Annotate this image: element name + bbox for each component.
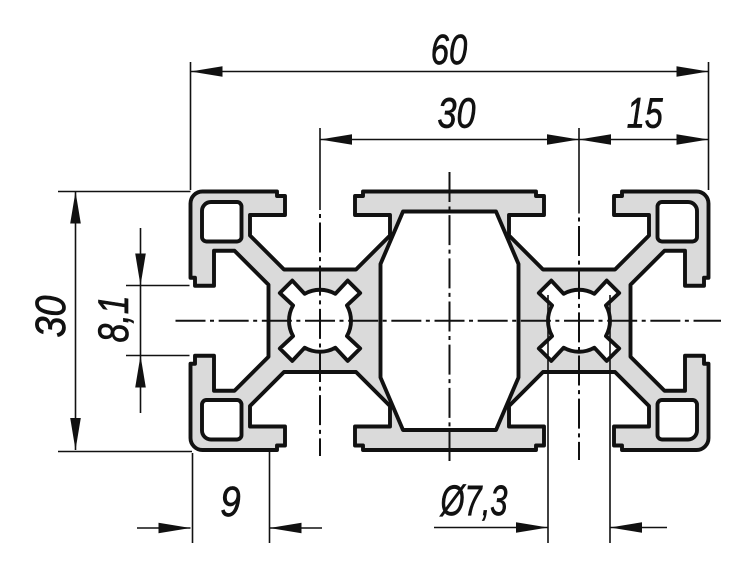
arrow 30 vert top xyxy=(70,192,81,224)
dim 9 left extension xyxy=(192,453,194,543)
svg-text:8,1: 8,1 xyxy=(90,296,138,343)
svg-text:15: 15 xyxy=(627,90,664,138)
svg-text:30: 30 xyxy=(438,90,476,138)
dim 60 left extension xyxy=(190,62,192,190)
dim 8,1 top extension xyxy=(126,285,190,287)
dim 7,3 left extension xyxy=(547,295,549,543)
centerline vertical through left anchor hole xyxy=(319,214,321,456)
dim 7,3 left shaft xyxy=(434,527,548,529)
arrow 7,3 right xyxy=(610,522,642,533)
arrow 8,1 top xyxy=(135,254,146,286)
arrow 30 top right xyxy=(547,134,579,145)
arrow 60 left xyxy=(191,66,223,77)
arrow 7,3 left xyxy=(516,522,548,533)
dim 30 vertical line (left) xyxy=(75,192,77,451)
arrow 8,1 bottom xyxy=(135,356,146,388)
arrow 30 top left xyxy=(320,134,352,145)
dim 30 bottom extension xyxy=(58,451,192,453)
centerline vertical profile middle xyxy=(449,172,451,461)
svg-text:Ø7,3: Ø7,3 xyxy=(439,477,507,525)
arrow 9 left xyxy=(159,523,191,534)
dim 8,1 line xyxy=(140,228,142,413)
dim 30 top extension xyxy=(58,191,191,193)
dim 60 right extension xyxy=(708,62,710,190)
svg-text:9: 9 xyxy=(220,478,241,526)
centerline horizontal profile middle xyxy=(176,320,722,322)
svg-text:30: 30 xyxy=(27,295,75,337)
arrow 9 right xyxy=(270,523,302,534)
dim 30/15 line xyxy=(320,139,709,141)
svg-text:60: 60 xyxy=(431,26,468,74)
dim 8,1 bottom extension xyxy=(126,355,190,357)
arrow 15 left xyxy=(579,134,611,145)
arrow 60 right xyxy=(677,66,709,77)
dim 60 line xyxy=(191,71,709,73)
dim 7,3 right extension xyxy=(609,295,611,543)
dim 9 right extension xyxy=(269,451,271,543)
dim 7,3 right shaft xyxy=(610,527,667,529)
dim 9 left shaft xyxy=(137,527,191,529)
dim 15 left extension xyxy=(578,128,580,214)
dim 9 right shaft xyxy=(270,527,323,529)
dim 30 left extension xyxy=(319,128,321,210)
profile body (60x30 aluminium extrusion cross-section) xyxy=(191,192,709,451)
arrow 15 right xyxy=(677,134,709,145)
arrow 30 vert bottom xyxy=(70,418,81,450)
centerline vertical through right anchor hole xyxy=(578,218,580,461)
